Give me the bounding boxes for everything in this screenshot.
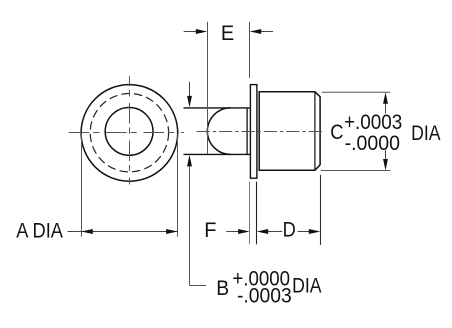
A dim arrowhead left [81,229,93,234]
front view inner bore circle [105,107,153,155]
side view shaft end edge [246,108,248,154]
front view hidden dashed circle [90,94,168,172]
svg-text:DIA: DIA [411,122,440,146]
D dim extension line left (flange left face) [249,182,251,245]
side view dome arc [207,108,230,154]
E dim arrowhead left [196,29,208,34]
D dim extension line right (body end) [320,175,322,245]
side view shaft top line with B extension [184,107,251,109]
D dim arrowhead left [257,229,269,234]
svg-text:D: D [283,218,296,241]
D dim arrowhead right [309,229,321,234]
B dim top arrow line [189,82,191,97]
A dimension line [68,231,178,233]
front view vertical centerline [129,76,131,184]
E dim extension line right (flange face) [249,22,251,78]
side view flange [250,85,257,179]
side view chamfer edge line [314,93,316,170]
svg-text:B: B [216,277,229,300]
svg-text:E: E [221,22,234,46]
svg-text:A DIA: A DIA [16,219,64,242]
C dim arrowhead down [383,159,388,171]
B dim bottom arrowhead [187,155,192,167]
F dim arrowhead [238,229,250,234]
svg-text:-.0003: -.0003 [237,285,292,308]
front view horizontal centerline [69,132,184,134]
svg-text:+.0003: +.0003 [344,111,402,134]
C dim extension line top [322,91,391,93]
D dimension line left segment [266,231,282,233]
svg-text:C: C [330,121,343,144]
C dim extension line bottom [321,170,391,172]
svg-text:DIA: DIA [292,274,321,298]
A dim extension line left [81,134,83,237]
side view shaft bottom line with B extension [184,153,251,155]
C dimension line bottom segment [385,150,387,159]
B dim top arrowhead [187,96,192,108]
D dimension line right segment [298,231,311,233]
front view outer circle (A diameter) [81,85,178,182]
B leader horizontal tail [190,285,207,287]
A dim arrowhead right [166,229,178,234]
C dimension line top segment [385,103,387,114]
F dimension line [226,231,240,233]
B leader vertical line [189,166,191,286]
svg-text:F: F [204,219,216,243]
D dim extension line mid (flange right face) [256,182,258,245]
C dim arrowhead up [383,92,388,104]
side view centerline [197,131,324,133]
E dimension line left segment [184,31,199,33]
E dimension line right segment [258,31,273,33]
E dim arrowhead right [250,29,262,34]
svg-text:-.0000: -.0000 [345,132,400,155]
E dim extension line left (dome tangent) [207,22,209,154]
A dim extension line right [177,134,179,237]
side view body outline with chamfers [259,92,320,171]
